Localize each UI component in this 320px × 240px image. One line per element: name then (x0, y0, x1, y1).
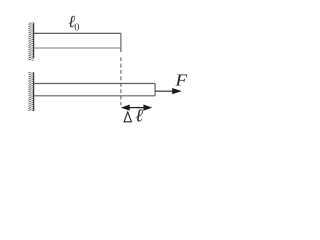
rod (stretched) bottom bar (34, 84, 156, 96)
label l0 (original length) (68, 12, 79, 34)
elongation double arrow (121, 105, 153, 111)
svg-text:F: F (174, 71, 187, 90)
svg-text:0: 0 (74, 22, 79, 33)
rod (unstretched) top bar (34, 33, 121, 52)
dashed reference line at original length (120, 57, 122, 105)
wall (fixed support) top (28, 22, 33, 60)
svg-text:ℓ: ℓ (135, 107, 143, 127)
label delta-l (elongation) (124, 107, 143, 127)
force arrow F (155, 88, 182, 94)
wall (fixed support) bottom (28, 72, 33, 111)
